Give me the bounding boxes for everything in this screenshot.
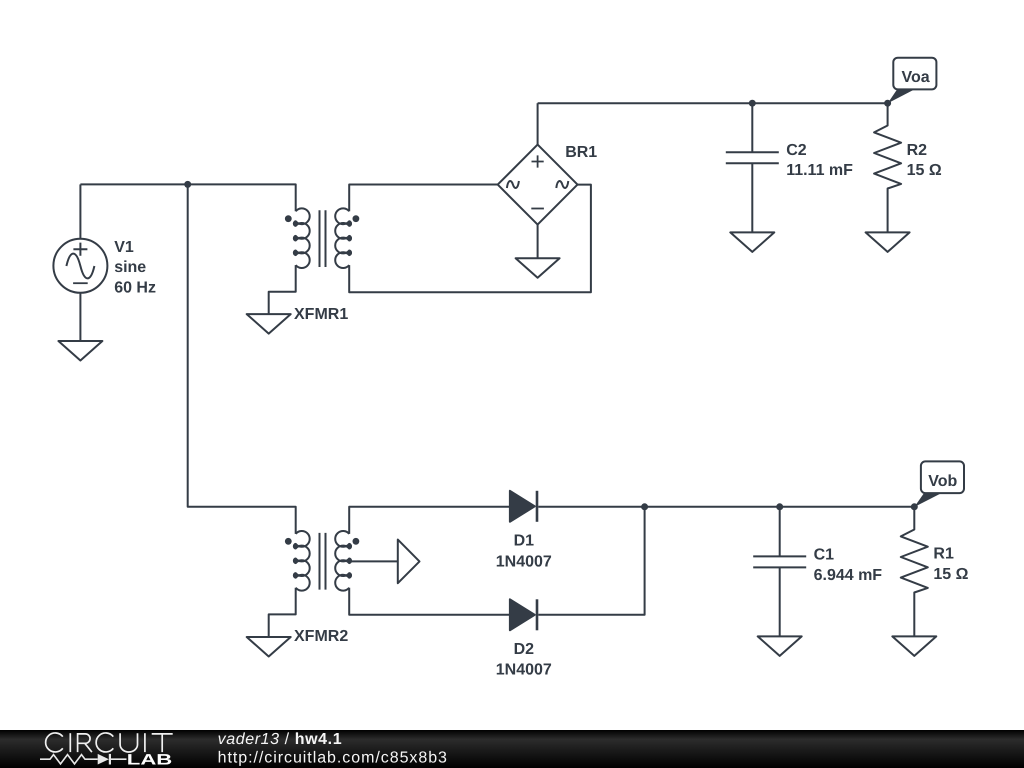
svg-text:15 Ω: 15 Ω (933, 566, 968, 583)
svg-text:R2: R2 (907, 142, 928, 159)
svg-text:D1: D1 (514, 533, 535, 550)
svg-text:Voa: Voa (902, 69, 930, 86)
capacitor C2 (726, 103, 779, 232)
ground XFMR2 (247, 637, 291, 657)
svg-text:Vob: Vob (928, 473, 957, 490)
node junction C2 top (749, 100, 756, 107)
node Vob junction (911, 503, 918, 510)
V1 label (114, 239, 156, 296)
svg-text:sine: sine (114, 259, 146, 276)
svg-text:11.11 mF: 11.11 mF (786, 162, 853, 179)
ground R1 (892, 636, 936, 656)
svg-text:C1: C1 (814, 547, 835, 564)
svg-text:C2: C2 (786, 142, 807, 159)
ground BR1 (516, 258, 560, 278)
wire XFMR2 secondary bottom (349, 588, 510, 615)
node junction D (641, 503, 648, 510)
svg-text:XFMR2: XFMR2 (294, 628, 348, 645)
D1 label (496, 533, 552, 571)
svg-text:BR1: BR1 (565, 144, 597, 161)
transformer XFMR1 (285, 208, 359, 268)
node junction A (184, 181, 191, 188)
C2 label (786, 142, 853, 179)
svg-text:XFMR1: XFMR1 (294, 306, 348, 323)
wire XFMR2 primary bottom (269, 588, 296, 637)
ground XFMR1 (247, 314, 291, 334)
wire XFMR1 secondary bottom loop (349, 185, 591, 293)
wire XFMR1 primary bottom (269, 265, 296, 314)
ground C1 (758, 636, 802, 656)
wire XFMR1 secondary top to bridge (349, 185, 498, 212)
transformer XFMR2 (285, 531, 359, 591)
diode D1 (510, 491, 537, 522)
CircuitLab logo resistor-diode line (40, 754, 127, 765)
resistor R2 (874, 103, 901, 232)
wire XFMR2 secondary top (349, 507, 510, 534)
node flag center tap (398, 540, 420, 584)
node junction C1 top (776, 503, 783, 510)
C1 label (814, 547, 883, 584)
wire top rail left (80, 184, 295, 211)
wire D1 to junction (538, 506, 914, 508)
bridge rectifier BR1 (498, 145, 578, 225)
ground V1 (58, 341, 102, 361)
svg-text:V1: V1 (114, 239, 134, 256)
svg-text:60 Hz: 60 Hz (114, 279, 156, 296)
svg-text:R1: R1 (933, 546, 954, 563)
resistor R1 (901, 507, 928, 637)
node flag Vob (914, 461, 964, 507)
CircuitLab logo CIRCUIT (46, 733, 173, 752)
voltage source V1 (53, 239, 107, 293)
node flag Voa (888, 58, 937, 104)
ground C2 (730, 232, 774, 252)
ground R2 (866, 232, 910, 252)
svg-text:D2: D2 (514, 641, 535, 658)
wire top rail right (538, 102, 888, 104)
R2 label (907, 142, 942, 179)
wire V1 top (79, 184, 81, 238)
wire long vertical to XFMR2 (188, 184, 296, 534)
svg-text:1N4007: 1N4007 (496, 662, 552, 679)
wire BR1 top (537, 103, 539, 144)
diode D2 (510, 599, 537, 630)
wire D2 to junction (538, 507, 644, 615)
svg-text:LAB: LAB (127, 751, 173, 768)
svg-text:vader13 / hw4.1: vader13 / hw4.1 (218, 731, 343, 748)
svg-text:1N4007: 1N4007 (496, 553, 552, 570)
D2 label (496, 641, 552, 679)
svg-text:http://circuitlab.com/c85x8b3: http://circuitlab.com/c85x8b3 (218, 750, 448, 767)
wire BR1 bottom (537, 225, 539, 259)
node Voa junction (884, 100, 891, 107)
footer bar (0, 730, 1024, 768)
svg-text:6.944 mF: 6.944 mF (814, 567, 883, 584)
capacitor C1 (753, 507, 806, 637)
R1 label (933, 546, 968, 583)
svg-text:15 Ω: 15 Ω (907, 162, 942, 179)
wire XFMR2 center tap (349, 560, 398, 562)
wire V1 bottom (79, 293, 81, 341)
